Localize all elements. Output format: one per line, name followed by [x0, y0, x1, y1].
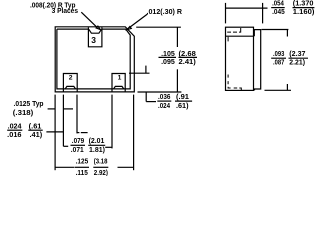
svg-text:2.41): 2.41)	[179, 59, 196, 66]
svg-text:(.91: (.91	[176, 94, 189, 101]
svg-text:.045: .045	[272, 9, 285, 16]
svg-text:.012(.30) R: .012(.30) R	[147, 9, 183, 16]
svg-text:.61): .61)	[176, 103, 189, 110]
svg-text:(3.18: (3.18	[94, 159, 108, 166]
svg-text:2.21): 2.21)	[289, 60, 305, 67]
svg-text:.054: .054	[272, 1, 284, 8]
svg-text:.071: .071	[71, 147, 84, 154]
svg-text:.036: .036	[158, 94, 170, 101]
svg-text:2: 2	[69, 74, 73, 81]
svg-text:.41): .41)	[30, 132, 43, 139]
svg-text:1: 1	[118, 75, 122, 82]
svg-text:.087: .087	[273, 60, 284, 67]
svg-text:3 Places: 3 Places	[52, 8, 78, 15]
svg-text:.105: .105	[161, 51, 175, 58]
svg-text:(.61: (.61	[29, 124, 42, 131]
svg-text:1.160): 1.160)	[293, 9, 315, 16]
svg-text:.024: .024	[158, 103, 170, 110]
svg-text:.079: .079	[72, 138, 84, 145]
svg-text:.024: .024	[8, 124, 22, 131]
svg-text:.0125 Typ: .0125 Typ	[14, 101, 44, 108]
svg-text:(2.68: (2.68	[179, 51, 196, 58]
svg-text:.016: .016	[7, 132, 21, 139]
svg-text:.093: .093	[273, 51, 284, 58]
svg-text:.095: .095	[161, 59, 175, 66]
svg-text:(2.37: (2.37	[289, 51, 305, 58]
svg-text:(2.01: (2.01	[89, 138, 105, 145]
svg-text:(.318): (.318)	[13, 110, 34, 117]
svg-text:2.92): 2.92)	[94, 170, 108, 176]
svg-text:1.81): 1.81)	[89, 147, 105, 154]
svg-text:.125: .125	[76, 159, 89, 166]
svg-text:(1.370: (1.370	[293, 1, 314, 8]
svg-text:3: 3	[91, 35, 96, 45]
svg-text:.115: .115	[76, 170, 88, 176]
